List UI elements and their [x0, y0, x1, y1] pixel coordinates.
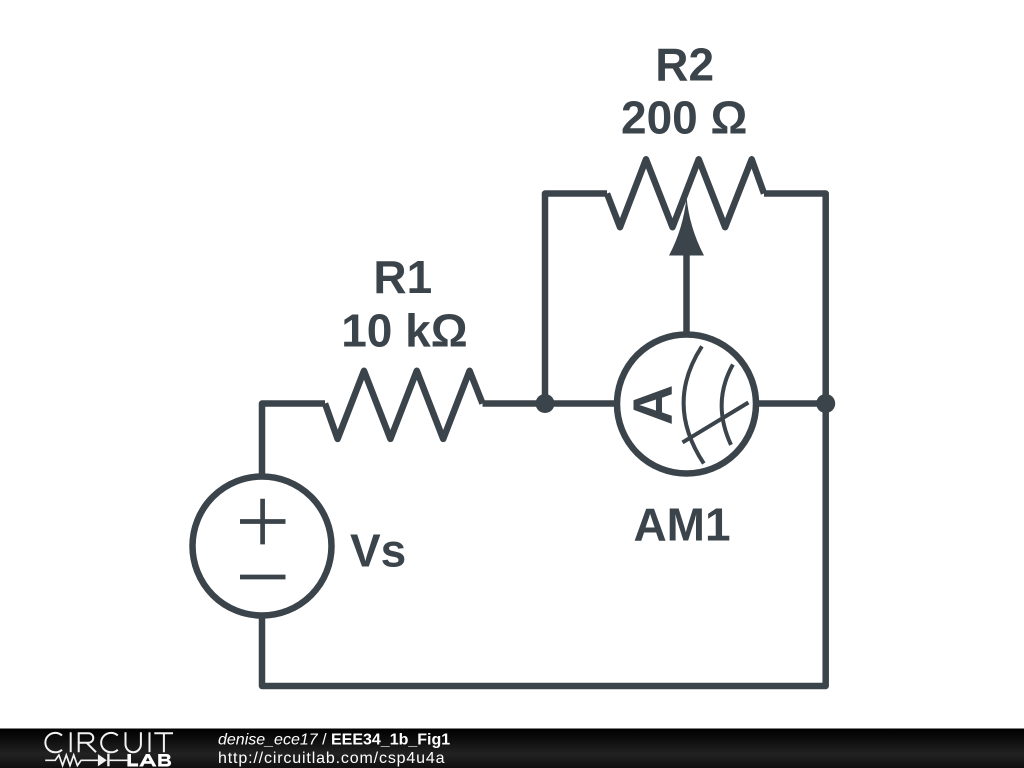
node left junction dot [536, 394, 555, 413]
wiper arrowhead [669, 197, 704, 256]
plus sign [240, 499, 286, 545]
svg-text:denise_ece17 / EEE34_1b_Fig1: denise_ece17 / EEE34_1b_Fig1 [218, 732, 450, 749]
wire wiper arrow shaft [683, 248, 690, 335]
ammeter meter arcs and needle [683, 346, 749, 463]
wire R1 to ammeter (through node) [483, 400, 619, 407]
voltage source Vs circle [193, 477, 332, 616]
svg-text:R1: R1 [373, 251, 432, 303]
svg-text:Vs: Vs [350, 524, 406, 576]
svg-text:http://circuitlab.com/csp4u4a: http://circuitlab.com/csp4u4a [218, 750, 445, 767]
resistor R1 [325, 371, 483, 439]
CircuitLab logo: CIRCUIT [45, 732, 173, 752]
minus sign [240, 575, 286, 580]
wire ammeter right to node [755, 400, 826, 407]
svg-text:10 kΩ: 10 kΩ [341, 304, 467, 356]
CircuitLab logo: LAB [127, 754, 171, 767]
svg-text:R2: R2 [655, 39, 714, 91]
wire Vs top to R1 [262, 404, 325, 477]
wire R2 right lead, down right side, bottom, up to Vs [262, 194, 826, 687]
CircuitLab logo: squiggle resistor + diode [45, 754, 127, 767]
svg-text:AM1: AM1 [633, 499, 730, 551]
wire node up to R2 left [545, 194, 607, 404]
svg-text:200 Ω: 200 Ω [621, 91, 747, 143]
svg-text:A: A [621, 385, 684, 425]
ammeter AM1 circle [617, 335, 756, 474]
node right junction dot [816, 394, 835, 413]
resistor R2 (potentiometer) [607, 159, 764, 227]
footer black bar [0, 729, 1024, 768]
